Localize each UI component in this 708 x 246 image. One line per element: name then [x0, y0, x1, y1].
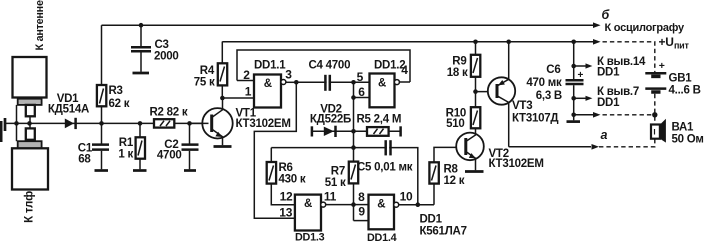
svg-text:C6: C6	[546, 64, 560, 76]
svg-text:R1: R1	[119, 137, 134, 149]
svg-text:DD1.4: DD1.4	[367, 232, 397, 244]
svg-text:6,3 В: 6,3 В	[536, 90, 562, 102]
svg-text:C5 0,01 мк: C5 0,01 мк	[357, 162, 413, 174]
svg-text:4...6 В: 4...6 В	[669, 84, 701, 96]
svg-text:КТ3107Д: КТ3107Д	[512, 112, 558, 124]
svg-text:DD1.3: DD1.3	[295, 231, 325, 243]
svg-text:К осцилографу: К осцилографу	[605, 22, 685, 34]
svg-text:2: 2	[243, 68, 250, 82]
svg-text:51 к: 51 к	[325, 177, 346, 189]
svg-text:R2 82 к: R2 82 к	[150, 107, 188, 119]
svg-text:4700: 4700	[157, 150, 182, 162]
svg-text:КТ3102ЕМ: КТ3102ЕМ	[236, 118, 291, 130]
svg-text:&: &	[377, 199, 385, 211]
svg-text:К тлф: К тлф	[24, 191, 36, 223]
svg-text:50 Ом: 50 Ом	[672, 133, 704, 145]
svg-text:а: а	[601, 128, 608, 142]
svg-text:3: 3	[285, 67, 292, 81]
svg-text:&: &	[304, 198, 312, 210]
svg-text:КТ3102ЕМ: КТ3102ЕМ	[489, 158, 544, 170]
svg-text:68: 68	[78, 154, 91, 166]
svg-text:R5 2,4 М: R5 2,4 М	[357, 113, 402, 125]
svg-text:4: 4	[401, 63, 408, 77]
svg-text:1: 1	[245, 84, 252, 98]
svg-text:5: 5	[357, 70, 364, 84]
svg-text:430 к: 430 к	[279, 174, 306, 186]
svg-text:6: 6	[358, 85, 365, 99]
svg-text:R9: R9	[452, 55, 466, 67]
svg-text:VT3: VT3	[512, 100, 532, 112]
svg-text:C4 4700: C4 4700	[309, 59, 351, 71]
svg-text:1 к: 1 к	[118, 149, 133, 161]
svg-text:DD1.1: DD1.1	[254, 60, 286, 72]
svg-text:18 к: 18 к	[447, 67, 468, 79]
svg-text:10: 10	[400, 189, 413, 203]
svg-text:DD1: DD1	[597, 67, 620, 79]
svg-text:+: +	[659, 60, 665, 72]
svg-text:GB1: GB1	[669, 72, 693, 84]
svg-text:+U: +U	[659, 35, 674, 49]
svg-text:DD1: DD1	[597, 97, 620, 109]
svg-text:R6: R6	[279, 162, 293, 174]
svg-text:К561ЛА7: К561ЛА7	[420, 225, 467, 237]
svg-text:13: 13	[279, 205, 292, 219]
svg-text:КД522Б: КД522Б	[310, 113, 351, 125]
svg-text:+: +	[578, 70, 584, 81]
svg-text:11: 11	[324, 189, 337, 203]
svg-text:DD1: DD1	[420, 213, 443, 225]
svg-text:R7: R7	[331, 166, 345, 178]
svg-text:62 к: 62 к	[109, 98, 130, 110]
svg-text:R4: R4	[200, 65, 215, 77]
svg-text:470 мк: 470 мк	[526, 77, 562, 89]
svg-text:&: &	[264, 78, 272, 90]
svg-text:12: 12	[280, 189, 293, 203]
svg-text:ВА1: ВА1	[672, 122, 695, 134]
svg-text:75 к: 75 к	[194, 77, 215, 89]
svg-text:510: 510	[446, 118, 464, 130]
svg-text:КД514А: КД514А	[48, 104, 89, 116]
svg-text:8: 8	[358, 190, 365, 204]
svg-text:R3: R3	[109, 85, 123, 97]
svg-text:C3: C3	[155, 39, 169, 51]
svg-text:9: 9	[358, 205, 365, 219]
svg-text:2000: 2000	[154, 51, 179, 63]
svg-text:12 к: 12 к	[444, 175, 465, 187]
svg-text:пит: пит	[674, 41, 689, 51]
svg-text:К антенне: К антенне	[34, 0, 46, 50]
svg-text:&: &	[378, 78, 386, 90]
